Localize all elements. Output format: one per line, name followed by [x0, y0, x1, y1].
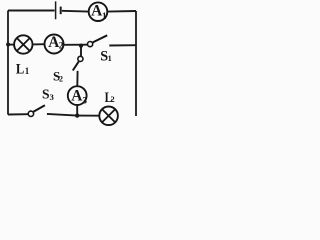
wire A1 to top-right corner — [107, 10, 136, 13]
svg-text:A: A — [91, 3, 102, 20]
svg-text:S: S — [42, 87, 50, 102]
ammeter A3 — [68, 86, 88, 105]
wire branch upper segment — [80, 46, 82, 57]
svg-text:3: 3 — [50, 92, 55, 102]
svg-text:L: L — [16, 61, 24, 78]
svg-text:3: 3 — [82, 95, 87, 105]
wire A2 to S1 — [64, 44, 88, 46]
switch S3 — [28, 105, 45, 116]
wire junction to L2 — [77, 115, 99, 117]
wire A3 to bottom junction — [76, 105, 78, 116]
switch S1 — [88, 35, 108, 46]
wire S1 to right border — [109, 44, 136, 46]
label L1 — [16, 61, 30, 78]
node junction on left border — [6, 43, 10, 47]
wire left border — [7, 11, 9, 115]
wire L1 to A2 — [33, 43, 45, 45]
wire branch lower segment — [76, 71, 78, 86]
wire top-left (battery to left corner) — [8, 10, 55, 12]
svg-text:2: 2 — [59, 74, 63, 83]
wire left border to L1 — [8, 44, 14, 46]
label L2 — [105, 90, 115, 106]
wire battery to A1 — [62, 10, 89, 13]
wire right border — [135, 11, 137, 116]
battery cell — [56, 1, 61, 19]
switch S2 — [73, 56, 83, 70]
label S2 — [53, 69, 63, 84]
svg-text:A: A — [71, 88, 82, 105]
svg-text:1: 1 — [25, 66, 30, 76]
svg-text:2: 2 — [59, 41, 64, 51]
svg-text:2: 2 — [110, 95, 114, 104]
svg-text:1: 1 — [102, 11, 107, 21]
lamp L2 — [99, 107, 118, 126]
svg-text:1: 1 — [108, 54, 112, 63]
wire S3 to bottom junction — [47, 114, 77, 116]
wire bottom-left segment — [8, 113, 28, 115]
label S1 — [100, 49, 112, 65]
node junction of branch — [79, 44, 83, 48]
label S3 — [42, 87, 55, 102]
ammeter A2 — [45, 34, 64, 54]
ammeter A1 — [89, 2, 108, 21]
node junction on bottom wire — [75, 113, 79, 117]
lamp L1 — [14, 35, 32, 53]
